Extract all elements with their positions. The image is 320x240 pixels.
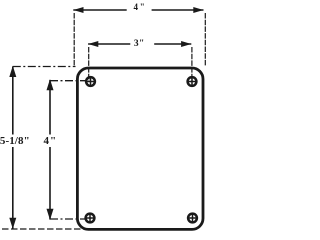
dimension 5-1/8in: bottom extension line (dashed to plate bottom edge) xyxy=(2,228,85,230)
hole top-right xyxy=(187,76,198,87)
dimension 5-1/8in: top arrowhead xyxy=(9,66,16,77)
dimension 4in left: bottom arrowhead xyxy=(47,209,54,220)
dimension 4in left: bottom extension line (dash-dot to bottom-left hole) xyxy=(50,218,86,220)
dimension 4in top: right arrowhead xyxy=(193,7,203,13)
hole bottom-right xyxy=(187,213,198,224)
hole top-left xyxy=(85,76,96,87)
dimension 4in left (hole to hole): line xyxy=(49,80,51,220)
mounting plate outline xyxy=(77,68,203,229)
dimension 5-1/8in: top extension line (dash-dot to plate top edge) xyxy=(13,66,76,68)
dimension 3in: left arrowhead xyxy=(88,41,98,47)
dimension 4in top: line xyxy=(73,9,203,11)
svg-text:5-1/8": 5-1/8" xyxy=(0,135,30,147)
dimension 3in: line xyxy=(88,43,191,45)
dimension 5-1/8in: bottom arrowhead xyxy=(9,218,16,229)
svg-text:4": 4" xyxy=(43,135,57,147)
dimension 4in top: right extension line xyxy=(204,13,206,67)
svg-text:3": 3" xyxy=(134,39,145,49)
dimension 3in: right arrowhead xyxy=(181,41,191,47)
dimension 4in left: top extension line (dash-dot to top-left hole) xyxy=(50,80,87,82)
hole bottom-left xyxy=(85,213,96,224)
dimension 5-1/8in: line xyxy=(12,67,14,229)
dimension 3in: left extension line xyxy=(88,47,90,81)
dimension 3in: right extension line xyxy=(191,47,193,81)
dimension 4in left: top arrowhead xyxy=(47,79,54,90)
svg-text:4": 4" xyxy=(133,2,146,12)
dimension 4in top: left extension line xyxy=(73,13,75,67)
dimension 4in top: left arrowhead xyxy=(73,7,83,13)
